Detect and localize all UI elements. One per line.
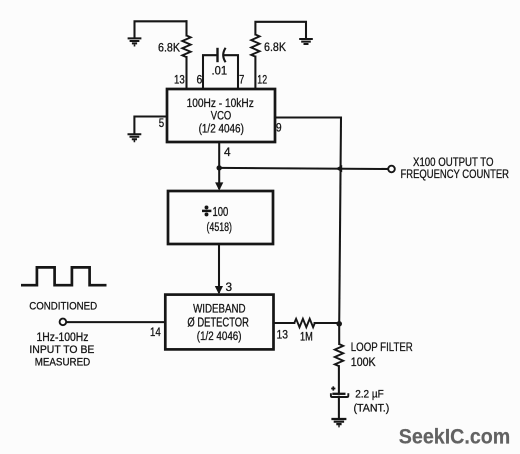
svg-text:Ø DETECTOR: Ø DETECTOR (187, 316, 249, 330)
svg-text:CONDITIONED: CONDITIONED (29, 301, 97, 313)
svg-text:2.2 µF: 2.2 µF (355, 389, 384, 401)
svg-text:4: 4 (224, 145, 231, 159)
svg-text:9: 9 (276, 120, 282, 134)
svg-text:FREQUENCY COUNTER: FREQUENCY COUNTER (401, 167, 510, 181)
svg-text:3: 3 (226, 280, 233, 294)
svg-text:6.8K: 6.8K (264, 40, 286, 54)
svg-text:INPUT TO BE: INPUT TO BE (29, 344, 94, 356)
svg-text:1M: 1M (300, 329, 313, 343)
svg-text:.01: .01 (212, 63, 228, 77)
svg-text:100: 100 (213, 204, 229, 219)
svg-text:100K: 100K (351, 355, 376, 369)
svg-text:(4518): (4518) (207, 222, 233, 234)
svg-text:13: 13 (174, 72, 185, 86)
svg-text:(1/2 4046): (1/2 4046) (199, 121, 244, 135)
svg-text:WIDEBAND: WIDEBAND (193, 301, 246, 315)
svg-text:6.8K: 6.8K (158, 40, 180, 54)
svg-text:13: 13 (277, 327, 289, 341)
svg-text:12: 12 (257, 72, 267, 86)
svg-text:5: 5 (159, 116, 165, 130)
svg-text:SeekIC.com: SeekIC.com (399, 425, 511, 449)
svg-text:14: 14 (150, 325, 161, 339)
svg-text:(1/2 4046): (1/2 4046) (197, 329, 242, 343)
svg-text:VCO: VCO (211, 108, 232, 122)
svg-text:MEASURED: MEASURED (35, 357, 91, 369)
svg-text:LOOP FILTER: LOOP FILTER (351, 340, 413, 354)
svg-text:(TANT.): (TANT.) (354, 402, 390, 414)
svg-text:7: 7 (239, 72, 245, 86)
svg-text:1Hz-100Hz: 1Hz-100Hz (37, 332, 89, 344)
svg-text:6: 6 (197, 72, 203, 86)
